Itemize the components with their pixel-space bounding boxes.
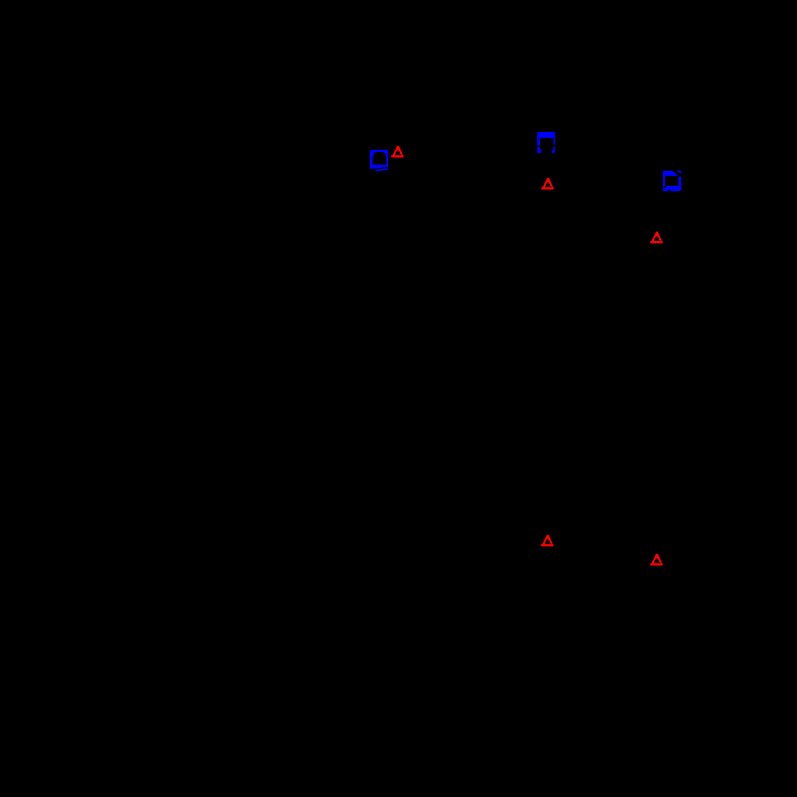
warning marker W5	[650, 554, 663, 566]
component icon U3 (blue document with folded corner)	[663, 171, 681, 191]
warning marker W3	[650, 232, 663, 244]
warning marker W4	[541, 535, 554, 547]
component icon U1 (blue monitor/frame icon)	[370, 150, 388, 171]
component icon U2 (blue bracket/window icon)	[537, 132, 555, 153]
warning marker W2	[541, 178, 554, 190]
warning marker W1	[391, 146, 404, 158]
